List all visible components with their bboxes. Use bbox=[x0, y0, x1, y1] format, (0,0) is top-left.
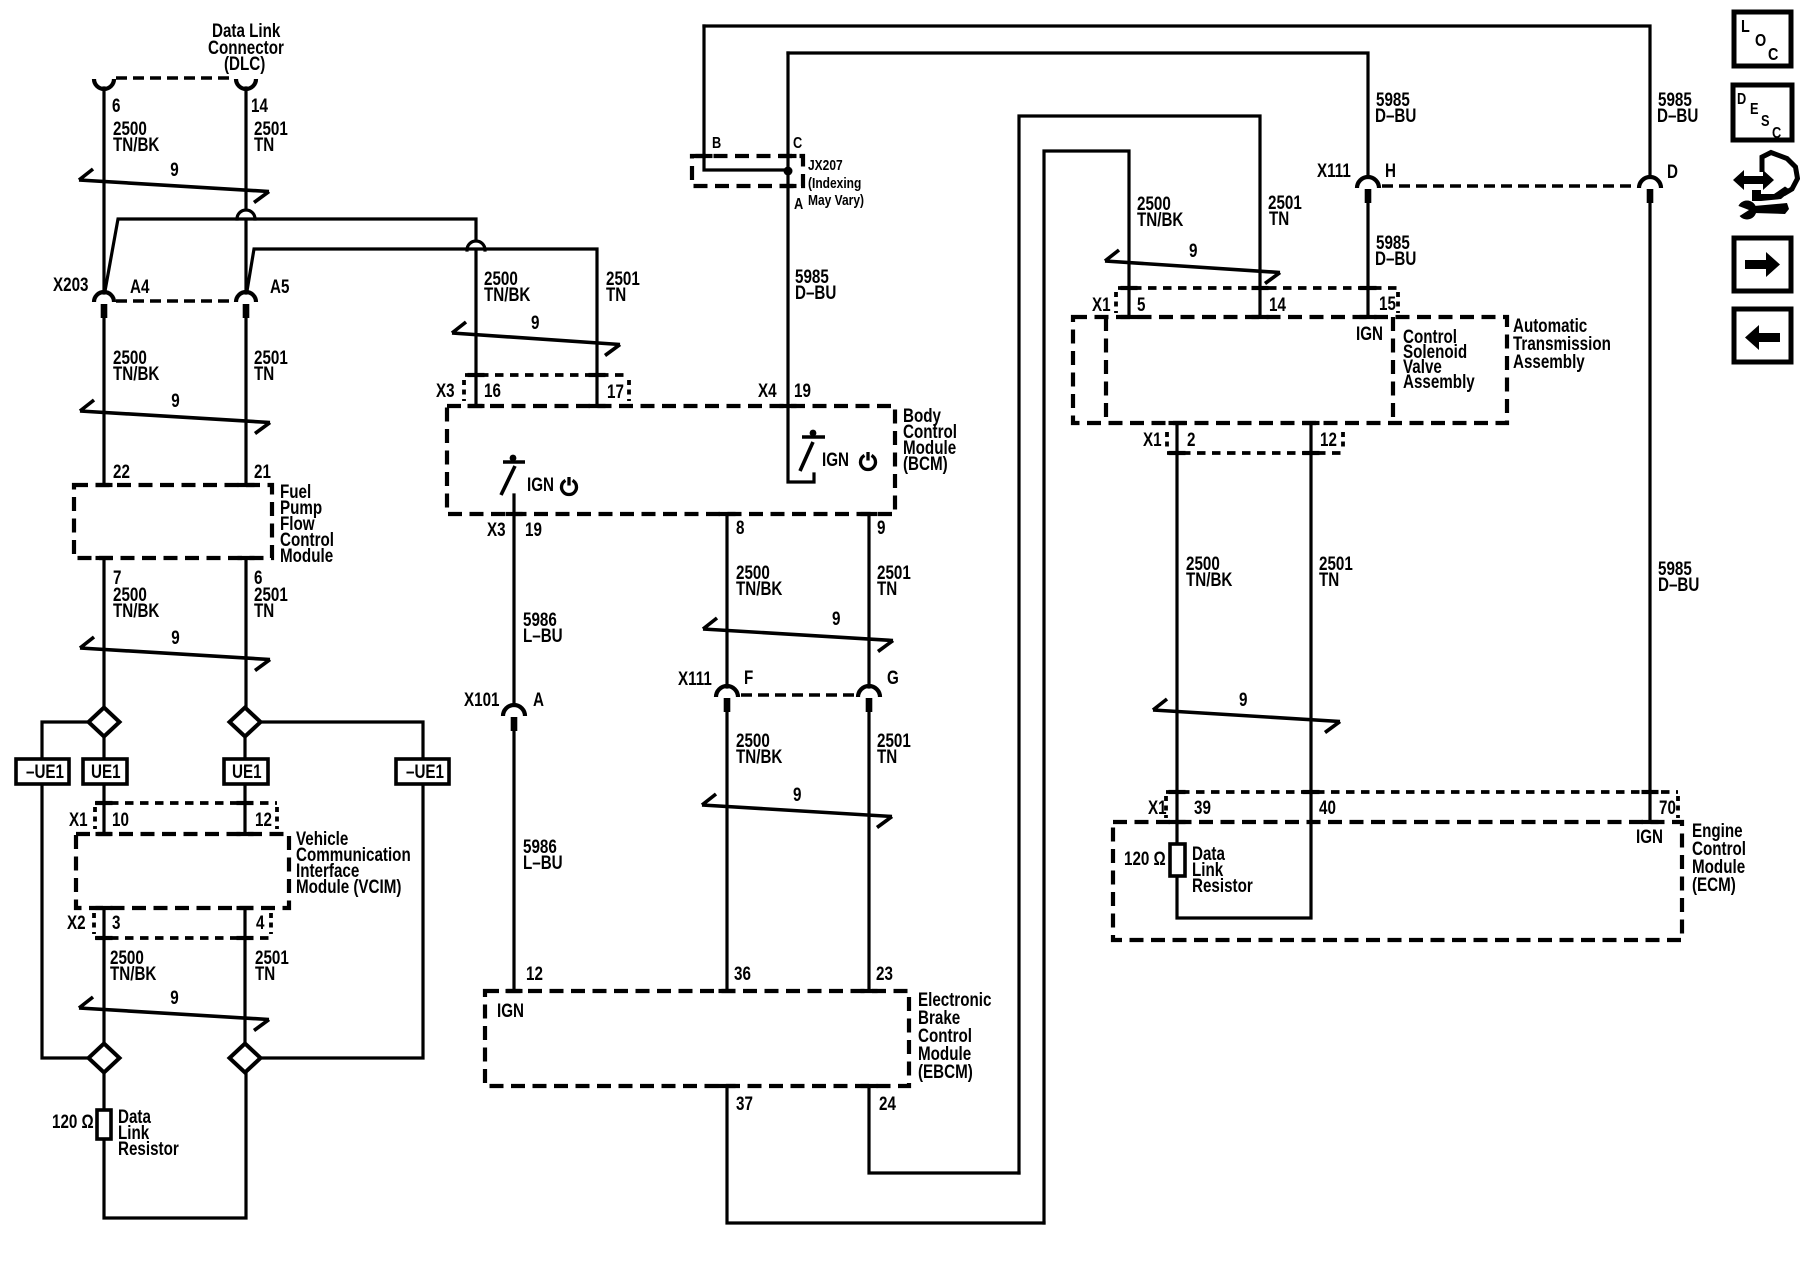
wire 2500 TN/BK: EBCM pin 37 down and right bbox=[727, 1086, 1044, 1223]
svg-text:E: E bbox=[1750, 101, 1759, 119]
svg-text:36: 36 bbox=[734, 962, 751, 984]
icon box DESC bbox=[1733, 85, 1792, 142]
twisted pair 9: DLC leads bbox=[79, 180, 269, 192]
svg-text:JX207: JX207 bbox=[808, 157, 843, 174]
svg-text:9: 9 bbox=[1239, 688, 1247, 710]
svg-text:37: 37 bbox=[736, 1092, 753, 1114]
wire 2501 TN: DLC pin 14 down to X203 A5 (hop dome at y=218) bbox=[244, 88, 247, 293]
svg-text:UE1: UE1 bbox=[91, 760, 121, 782]
wire 5985 D-BU: JX207 C/A down to BCM X4 pin 19 bbox=[786, 53, 789, 406]
svg-text:X1: X1 bbox=[1148, 796, 1167, 818]
connector X203 A5 pin stub bbox=[243, 304, 250, 318]
wire: BCM right ignition switch lead bbox=[788, 406, 814, 482]
power symbol right IGN bbox=[861, 452, 876, 470]
wire 5985 D-BU: below X111 H to ATA pin 15 bbox=[1366, 203, 1369, 317]
svg-text:L–BU: L–BU bbox=[523, 851, 563, 873]
resistor 120 ohm data link resistor (ECM) bbox=[1170, 844, 1185, 876]
svg-text:X1: X1 bbox=[1092, 293, 1111, 315]
module box: Engine Control Module (ECM) bbox=[1113, 822, 1682, 940]
svg-text:TN: TN bbox=[254, 133, 274, 155]
svg-text:5: 5 bbox=[1137, 293, 1146, 315]
svg-text:TN/BK: TN/BK bbox=[484, 283, 531, 305]
svg-text:TN/BK: TN/BK bbox=[113, 362, 160, 384]
svg-text:X1: X1 bbox=[69, 808, 88, 830]
svg-text:9: 9 bbox=[171, 626, 179, 648]
pivot dot left ignition switch bbox=[510, 455, 517, 462]
wire: horizontal run y=248 from A5 to BCM pin 17 bbox=[247, 249, 597, 406]
wire: ECM resistor loop to pin 40 and ATA pin 12 bbox=[1177, 423, 1311, 918]
wire: splice through UE1 to VCIM X1 pin 10 bbox=[102, 737, 105, 834]
connector band X3 at BCM top bbox=[465, 373, 629, 377]
svg-text:70: 70 bbox=[1659, 796, 1676, 818]
wire 2501 TN: X203 A5 down to Fuel Pump pin 21 bbox=[244, 317, 247, 485]
ignition switch in BCM (left) bbox=[503, 460, 525, 464]
svg-text:TN: TN bbox=[254, 362, 274, 384]
splice diamond lower right bbox=[230, 1044, 261, 1073]
icon box arrow left bbox=[1734, 309, 1791, 362]
svg-text:4: 4 bbox=[256, 911, 265, 933]
wire 2501 TN: BCM pin 9 to X111 G bbox=[867, 514, 870, 687]
svg-text:17: 17 bbox=[607, 380, 624, 402]
connector band X1 at ATA top bbox=[1118, 286, 1398, 290]
connector D bbox=[1639, 177, 1661, 188]
twisted pair 9: BCM pins 8/9 leads bbox=[703, 629, 893, 641]
svg-text:24: 24 bbox=[879, 1092, 896, 1114]
pin terminal ticks bbox=[96, 483, 113, 487]
svg-text:14: 14 bbox=[251, 94, 268, 116]
fuse box -UE1 left bbox=[16, 759, 69, 784]
svg-text:A: A bbox=[533, 688, 544, 710]
connector X111 F-G dashed line bbox=[741, 693, 855, 697]
svg-text:X3: X3 bbox=[436, 379, 455, 401]
module box: Electronic Brake Control Module (EBCM) bbox=[485, 991, 909, 1086]
svg-text:120 Ω: 120 Ω bbox=[1124, 847, 1166, 869]
module box: Body Control Module (BCM) bbox=[447, 406, 895, 514]
svg-text:IGN: IGN bbox=[497, 999, 524, 1021]
svg-text:(DLC): (DLC) bbox=[224, 52, 265, 74]
svg-text:TN/BK: TN/BK bbox=[736, 745, 783, 767]
svg-text:H: H bbox=[1385, 159, 1396, 181]
svg-text:S: S bbox=[1761, 113, 1770, 131]
wire: JX207 pin B vertical and jog bbox=[704, 26, 788, 170]
svg-text:X3: X3 bbox=[487, 518, 506, 540]
svg-text:TN/BK: TN/BK bbox=[736, 577, 783, 599]
icon box arrow right bbox=[1734, 238, 1791, 291]
svg-text:L: L bbox=[1741, 17, 1750, 37]
svg-text:(BCM): (BCM) bbox=[903, 452, 948, 474]
svg-text:TN: TN bbox=[255, 962, 275, 984]
svg-text:TN/BK: TN/BK bbox=[1186, 568, 1233, 590]
svg-text:Module (VCIM): Module (VCIM) bbox=[296, 875, 401, 897]
svg-text:12: 12 bbox=[1320, 428, 1337, 450]
wire 2500 TN/BK: X111 F to EBCM pin 36 bbox=[725, 711, 728, 991]
svg-text:Resistor: Resistor bbox=[118, 1137, 179, 1159]
svg-text:F: F bbox=[744, 666, 753, 688]
connector X111 H pin stub bbox=[1365, 189, 1372, 203]
svg-text:D–BU: D–BU bbox=[1375, 104, 1416, 126]
svg-text:9: 9 bbox=[171, 389, 179, 411]
svg-text:C: C bbox=[793, 135, 803, 153]
svg-text:Resistor: Resistor bbox=[1192, 874, 1253, 896]
svg-text:D–BU: D–BU bbox=[1658, 573, 1699, 595]
twisted pair 9: ATA pins 5/14 leads bbox=[1105, 261, 1280, 273]
module box: Fuel Pump Flow Control Module bbox=[74, 485, 272, 558]
connector DLC dashed line bbox=[116, 76, 234, 80]
svg-text:B: B bbox=[712, 135, 721, 153]
svg-text:9: 9 bbox=[531, 311, 539, 333]
fuse box UE1 right bbox=[224, 759, 268, 784]
wire 2501 TN: Fuel Pump pin 6 to splice bbox=[244, 558, 247, 708]
wire 5986 L-BU: X101 A to EBCM pin 12 bbox=[512, 731, 515, 991]
svg-text:TN: TN bbox=[254, 599, 274, 621]
svg-text:8: 8 bbox=[736, 516, 745, 538]
connector X203 dashed line bbox=[116, 299, 234, 303]
connector band X1 at ATA bottom bbox=[1167, 451, 1343, 455]
svg-text:9: 9 bbox=[170, 986, 178, 1008]
twisted pair 9: X203 leads bbox=[80, 411, 270, 423]
wire: BCM pin 16 vertical below hop dome bbox=[474, 251, 477, 406]
svg-text:21: 21 bbox=[254, 460, 271, 482]
svg-text:9: 9 bbox=[1189, 239, 1197, 261]
twisted pair 9: ATA pins 2/12 leads bbox=[1153, 710, 1340, 722]
svg-text:IGN: IGN bbox=[1356, 322, 1383, 344]
wire 2500 TN/BK: Fuel Pump pin 7 to splice bbox=[102, 558, 105, 708]
wire: right splice branch through -UE1 to lower splice bbox=[261, 722, 423, 1058]
svg-text:A5: A5 bbox=[270, 275, 290, 297]
wire 2500 TN/BK: X203 A4 down to Fuel Pump pin 22 bbox=[102, 317, 105, 485]
icon: service wrench with arrows bbox=[1733, 153, 1798, 220]
svg-text:X111: X111 bbox=[678, 667, 712, 689]
svg-text:IGN: IGN bbox=[1636, 825, 1663, 847]
svg-text:Assembly: Assembly bbox=[1403, 370, 1475, 392]
splice diamond upper right bbox=[230, 708, 261, 737]
icon box LOC bbox=[1734, 12, 1791, 66]
svg-text:16: 16 bbox=[484, 379, 501, 401]
module box: Vehicle Communication Interface Module (VCIM) bbox=[76, 834, 289, 908]
svg-text:A: A bbox=[794, 196, 804, 214]
svg-text:12: 12 bbox=[526, 962, 543, 984]
svg-text:X2: X2 bbox=[67, 911, 86, 933]
connector X203 A4 pin stub bbox=[101, 304, 108, 318]
svg-text:May Vary): May Vary) bbox=[808, 192, 864, 209]
svg-text:–UE1: –UE1 bbox=[26, 760, 64, 782]
twisted pair 9: fuel pump leads bbox=[80, 648, 270, 660]
junction block JX207 box bbox=[692, 156, 803, 186]
connector DLC pin 6 receptacle bbox=[94, 79, 114, 89]
svg-text:TN: TN bbox=[1269, 207, 1289, 229]
svg-text:L–BU: L–BU bbox=[523, 624, 563, 646]
svg-text:12: 12 bbox=[255, 808, 272, 830]
svg-text:X101: X101 bbox=[464, 688, 500, 710]
svg-text:(ECM): (ECM) bbox=[1692, 873, 1736, 895]
svg-text:D–BU: D–BU bbox=[1657, 104, 1698, 126]
svg-text:TN/BK: TN/BK bbox=[110, 962, 157, 984]
connector X101 A pin stub bbox=[511, 717, 518, 731]
svg-text:A4: A4 bbox=[130, 275, 150, 297]
svg-text:TN: TN bbox=[1319, 568, 1339, 590]
svg-text:TN: TN bbox=[877, 745, 897, 767]
svg-text:O: O bbox=[1755, 31, 1766, 51]
svg-text:D: D bbox=[1667, 160, 1678, 182]
svg-text:19: 19 bbox=[794, 379, 811, 401]
wire: data link resistor loop to lower-right splice bbox=[104, 1072, 246, 1218]
svg-text:6: 6 bbox=[112, 94, 120, 116]
svg-text:19: 19 bbox=[525, 518, 542, 540]
wire 2500 TN/BK: BCM pin 8 to X111 F bbox=[725, 514, 728, 687]
wire 2501 TN: EBCM 24 loop to ATA pin 14 bbox=[1019, 116, 1260, 1173]
twisted pair 9: BCM X3 leads bbox=[452, 333, 620, 345]
fuse box UE1 left bbox=[83, 759, 127, 784]
wire 2501 TN: X111 G to EBCM pin 23 bbox=[867, 711, 870, 991]
svg-text:C: C bbox=[1768, 45, 1779, 65]
svg-text:120 Ω: 120 Ω bbox=[52, 1110, 94, 1132]
wire 2500 TN/BK: EBCM 37 loop to ATA pin 5 bbox=[1044, 151, 1129, 1223]
svg-text:9: 9 bbox=[832, 607, 840, 629]
wire 2500 TN/BK: ATA X1 pin 2 to ECM resistor bbox=[1175, 423, 1178, 844]
connector band X1 at VCIM top bbox=[95, 801, 277, 805]
svg-text:D–BU: D–BU bbox=[1375, 247, 1416, 269]
svg-text:22: 22 bbox=[113, 460, 130, 482]
svg-text:TN/BK: TN/BK bbox=[113, 133, 160, 155]
wire: lower splice to data link resistor bbox=[102, 1072, 105, 1110]
wire 2501 TN: EBCM pin 24 down and right bbox=[869, 1086, 1019, 1173]
svg-text:D: D bbox=[1737, 91, 1746, 109]
svg-text:(EBCM): (EBCM) bbox=[918, 1060, 973, 1082]
connector X111 F pin stub bbox=[724, 698, 731, 712]
connector X203 A5 bbox=[236, 292, 256, 302]
connector H-D dashed line bbox=[1382, 184, 1636, 188]
svg-text:–UE1: –UE1 bbox=[406, 760, 444, 782]
svg-text:X111: X111 bbox=[1317, 159, 1351, 181]
svg-text:TN/BK: TN/BK bbox=[1137, 208, 1184, 230]
connector X111 F bbox=[716, 686, 738, 697]
svg-text:IGN: IGN bbox=[822, 448, 849, 470]
svg-text:X1: X1 bbox=[1143, 428, 1162, 450]
svg-text:9: 9 bbox=[877, 516, 885, 538]
fuse box -UE1 right bbox=[396, 759, 449, 784]
wire 2500 TN/BK: DLC pin 6 down to X203 A4 bbox=[102, 88, 105, 293]
svg-text:TN: TN bbox=[606, 283, 626, 305]
resistor 120 ohm data link resistor (left) bbox=[97, 1110, 111, 1139]
pivot dot right ignition switch bbox=[810, 430, 817, 437]
svg-text:23: 23 bbox=[876, 962, 893, 984]
svg-text:X4: X4 bbox=[758, 379, 777, 401]
svg-text:39: 39 bbox=[1194, 796, 1211, 818]
wire hop dome at (476,248) bbox=[467, 241, 485, 250]
svg-text:TN/BK: TN/BK bbox=[113, 599, 160, 621]
svg-text:15: 15 bbox=[1379, 292, 1396, 314]
svg-text:UE1: UE1 bbox=[232, 760, 262, 782]
wire: splice through UE1 to VCIM X1 pin 12 bbox=[243, 737, 246, 834]
svg-text:9: 9 bbox=[170, 158, 178, 180]
connector DLC pin 14 receptacle bbox=[236, 79, 256, 89]
wire 5985 D-BU: horizontal y=53 to X111 H bbox=[788, 53, 1368, 177]
connector X111 G bbox=[858, 686, 880, 697]
svg-text:3: 3 bbox=[112, 911, 120, 933]
svg-text:TN: TN bbox=[877, 577, 897, 599]
svg-text:40: 40 bbox=[1319, 796, 1336, 818]
svg-text:C: C bbox=[1772, 125, 1782, 143]
svg-text:G: G bbox=[887, 666, 899, 688]
partition: ATA inner left compartment bbox=[1104, 317, 1108, 423]
twisted pair 9: VCIM X2 leads bbox=[79, 1008, 269, 1020]
svg-text:10: 10 bbox=[112, 808, 129, 830]
svg-text:D–BU: D–BU bbox=[795, 281, 836, 303]
svg-text:2: 2 bbox=[1187, 428, 1195, 450]
power symbol left IGN bbox=[562, 477, 577, 495]
wire hop dome at (246,218) bbox=[237, 210, 255, 219]
connector band X1 at ECM top bbox=[1166, 790, 1678, 794]
svg-text:X203: X203 bbox=[53, 273, 88, 295]
splice diamond upper left bbox=[89, 708, 120, 737]
svg-text:(Indexing: (Indexing bbox=[808, 175, 861, 192]
connector D pin stub bbox=[1647, 189, 1654, 203]
wire 2501 TN: VCIM X2 pin 4 to lower splice bbox=[243, 908, 246, 1043]
junction dot JX207 bbox=[784, 167, 793, 176]
ignition switch in BCM (right) bbox=[802, 435, 825, 439]
splice diamond lower left bbox=[89, 1044, 120, 1073]
wire 5985 D-BU: top horizontal to connector D bbox=[704, 26, 1650, 177]
connector X111 G pin stub bbox=[866, 698, 873, 712]
twisted pair 9: X111 F/G leads bbox=[702, 805, 892, 817]
module box: Automatic Transmission Assembly bbox=[1073, 317, 1507, 423]
wire: left splice branch through -UE1 to lower splice bbox=[42, 722, 90, 1058]
svg-text:14: 14 bbox=[1269, 293, 1286, 315]
wire 5985 D-BU: below D to ECM pin 70 bbox=[1648, 203, 1651, 822]
connector X111 H bbox=[1357, 177, 1379, 188]
svg-text:Assembly: Assembly bbox=[1513, 350, 1585, 372]
wire 2500 TN/BK: VCIM X2 pin 3 to lower splice bbox=[102, 908, 105, 1043]
svg-text:IGN: IGN bbox=[527, 473, 554, 495]
connector X203 A4 bbox=[94, 292, 114, 302]
module box: Control Solenoid Valve Assembly bbox=[1391, 317, 1395, 423]
svg-text:9: 9 bbox=[793, 783, 801, 805]
connector band X2 at VCIM bottom bbox=[95, 936, 272, 940]
connector X101 A bbox=[503, 705, 525, 716]
svg-text:Module: Module bbox=[280, 544, 333, 566]
wire: horizontal run y=218 from A4 to BCM pin 16 corner bbox=[105, 219, 476, 291]
wire: BCM X3 pin 19 to X101 A bbox=[512, 495, 515, 705]
